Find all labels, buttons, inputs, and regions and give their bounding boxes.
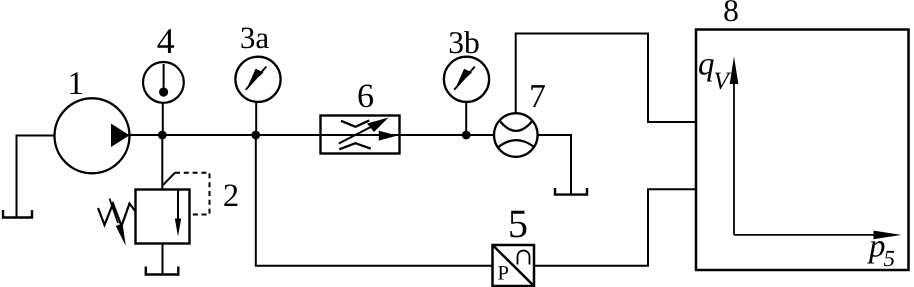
- flow direction arrowhead: [379, 131, 398, 141]
- graph vertical axis qV: [730, 57, 739, 235]
- wire: node A to relief valve 2: [161, 135, 163, 190]
- pressure gauge 3b: [444, 57, 489, 102]
- vertical axis line: [733, 80, 735, 235]
- label p5 (p): [867, 241, 884, 264]
- sensor body: [493, 245, 535, 286]
- pressure gauge 3a: [235, 57, 280, 102]
- label qV (q): [699, 59, 714, 82]
- label 3a: [241, 28, 268, 49]
- label 5: [510, 211, 526, 238]
- pressure sensor 5: [493, 245, 535, 286]
- tank T1 (pump suction): [3, 210, 32, 218]
- wire: thermometer 4 stem: [162, 103, 164, 136]
- wire: gauge 3b stem: [465, 101, 467, 135]
- pilot dashed line: [175, 173, 210, 215]
- label 8: [724, 0, 737, 21]
- horizontal axis arrowhead: [874, 231, 902, 240]
- gauge 3a circle: [235, 57, 280, 102]
- gauge 3a needle: [246, 67, 267, 90]
- label qV (V subscript): [715, 73, 731, 90]
- recorder box 8: [696, 30, 909, 271]
- sensor element arch symbol: [518, 251, 530, 265]
- vertical axis arrowhead: [730, 57, 739, 85]
- throttle adjustment arrow: [339, 122, 380, 143]
- thermometer circle: [143, 62, 184, 103]
- pump U1: [55, 98, 130, 173]
- flow meter upper arc: [499, 120, 533, 131]
- throttle upper chevron: [341, 120, 369, 126]
- thermometer bulb dot: [159, 87, 168, 96]
- throttle valve body: [321, 116, 400, 154]
- graph horizontal axis p5: [734, 231, 902, 240]
- wire: lower sense line (node B to sensor 5): [256, 135, 492, 266]
- junction node A (pump outlet / gauge 4 / relief valve branch): [158, 131, 167, 140]
- tank T4 (relief valve drain): [146, 267, 179, 275]
- flow meter 7: [494, 113, 538, 157]
- throttle valve 6: [321, 116, 400, 154]
- sensor P marking: [498, 266, 508, 279]
- tank T3 (flow meter drain): [555, 188, 587, 195]
- wire: relief valve 2 drain: [162, 244, 164, 275]
- pump circle: [55, 98, 130, 173]
- wire: main pressure line: [128, 134, 495, 136]
- thermometer stem line: [163, 64, 165, 92]
- relief valve internal flow arrow: [177, 190, 179, 230]
- label 6: [359, 85, 374, 108]
- gauge 3b circle: [444, 57, 489, 102]
- label 4: [157, 29, 174, 53]
- wire: pump suction line to tank: [17, 136, 55, 217]
- sensor diagonal: [493, 245, 535, 286]
- horizontal axis line: [734, 234, 878, 236]
- pilot line tap: [163, 173, 175, 185]
- wire: flow meter outlet to drain tank: [538, 135, 572, 194]
- label 2: [224, 185, 237, 207]
- wire: sensor 5 to recorder input: [534, 189, 696, 265]
- gauge 3b needle: [454, 67, 475, 90]
- label 1: [70, 72, 82, 94]
- label 7: [531, 85, 545, 107]
- pump flow triangle: [111, 124, 130, 148]
- wire: flow meter top to recorder input: [516, 34, 696, 123]
- throttle lower chevron: [339, 143, 371, 149]
- spring adjustment arrow: [110, 199, 119, 224]
- relief valve 2: [98, 173, 210, 246]
- junction node C (gauge 3b): [462, 131, 471, 140]
- relief valve body: [136, 190, 190, 244]
- label p5 (5 subscript): [884, 251, 894, 266]
- label 3b: [450, 31, 479, 53]
- junction node B (gauge 3a / lower sense branch): [251, 131, 260, 140]
- wire: gauge 3a stem: [255, 101, 257, 135]
- thermometer 4: [143, 62, 184, 103]
- flow meter circle: [494, 113, 538, 157]
- relief valve adjustable spring: [98, 204, 136, 227]
- flow meter lower arc: [499, 140, 534, 147]
